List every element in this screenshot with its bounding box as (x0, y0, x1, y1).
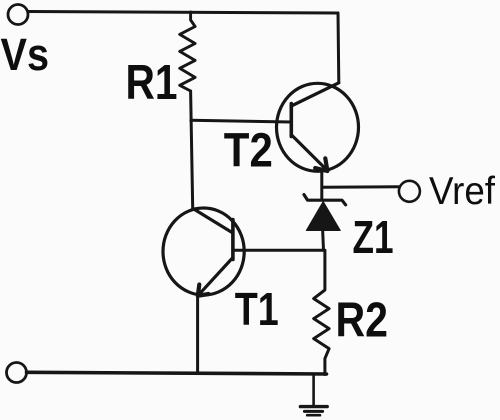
wire: Z1 anode to base node of T1 (321, 229, 325, 250)
transistor T1 (163, 208, 244, 296)
terminal: return (bottom left) (7, 363, 27, 383)
wire: bottom rail (27, 372, 327, 374)
svg-text:R2: R2 (336, 293, 389, 347)
wire: top rail from Vs terminal to T2 collector corner (29, 12, 339, 14)
wire: T2 emitter down to zener Z1 cathode (320, 170, 323, 200)
wire: emitter node to Vref terminal (322, 185, 399, 189)
resistor R1 (180, 12, 195, 91)
terminal: Vs input (8, 5, 28, 25)
wire: node to T2 base (191, 120, 291, 122)
svg-text:T1: T1 (235, 283, 279, 335)
svg-text:R1: R1 (126, 56, 178, 110)
svg-text:Vs: Vs (1, 29, 50, 80)
wire: base node to T1 base (233, 249, 325, 252)
svg-text:T2: T2 (224, 124, 273, 178)
zener diode Z1 (304, 195, 346, 231)
wire: R1 bottom through base node down to T1 collector (191, 91, 193, 208)
svg-text:Z1: Z1 (353, 211, 394, 263)
ground (300, 374, 327, 415)
resistor R2 (314, 250, 329, 374)
transistor T2 (277, 83, 359, 172)
terminal: Vref output (399, 181, 420, 202)
svg-text:Vref: Vref (429, 170, 495, 213)
wire: T1 emitter to bottom rail (196, 296, 199, 373)
wire: top rail drop to T2 collector (337, 13, 341, 83)
